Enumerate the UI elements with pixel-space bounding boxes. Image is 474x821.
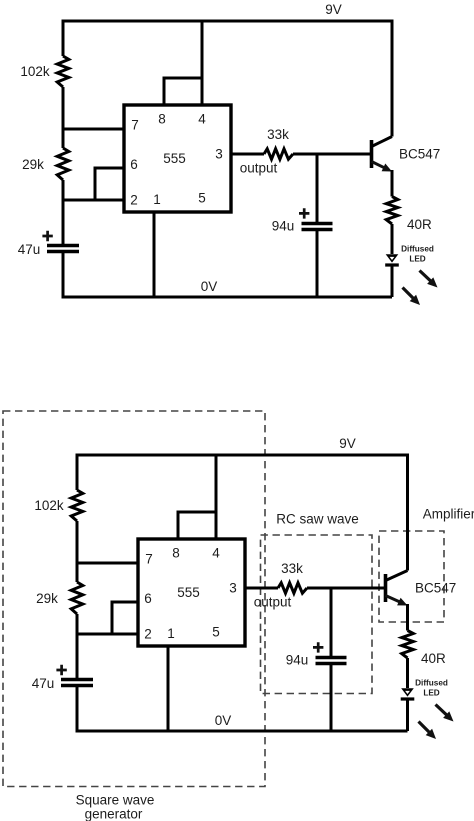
capacitor 47u (b) <box>32 665 93 691</box>
resistor 102k (b) <box>34 490 82 521</box>
resistor 33k (b) <box>278 561 307 593</box>
wire junction to pin 7 (b) <box>77 562 138 565</box>
node 0V label (b) <box>215 713 232 728</box>
wire pin 8 loop to pin 4 (b) <box>178 512 216 539</box>
node output label (a) <box>240 161 278 176</box>
pin 5 label (b) <box>212 625 220 640</box>
wire emitter to 40R (a) <box>391 170 394 197</box>
svg-text:RC saw wave: RC saw wave <box>276 512 359 527</box>
node 9V label (a) <box>325 2 342 17</box>
svg-text:generator: generator <box>85 807 143 821</box>
svg-text:47u: 47u <box>18 242 41 257</box>
svg-text:LED: LED <box>423 689 439 698</box>
svg-text:BC547: BC547 <box>399 147 440 162</box>
wire junction to pin 7 (a) <box>63 128 124 131</box>
wire pin 3 output to 33k (b) <box>245 587 278 590</box>
dashed block Square wave generator <box>3 411 265 821</box>
node output label (b) <box>254 595 292 610</box>
svg-text:3: 3 <box>215 147 223 162</box>
transistor BC547 (b) <box>386 571 457 606</box>
wire left rail 29k to 47u (a) <box>62 180 65 245</box>
svg-text:8: 8 <box>172 546 180 561</box>
svg-text:6: 6 <box>130 157 138 172</box>
svg-text:555: 555 <box>163 151 186 166</box>
svg-text:555: 555 <box>177 585 200 600</box>
transistor BC547 (a) <box>372 137 441 172</box>
pin 4 label (a) <box>198 112 206 127</box>
wire 33k to transistor base (a) <box>293 153 372 156</box>
resistor 40R (a) <box>386 197 432 233</box>
diode Diffused LED (a) <box>385 245 434 266</box>
svg-text:33k: 33k <box>267 127 289 142</box>
pin 3 label (b) <box>229 581 237 596</box>
wire junction to pin 2 (b) <box>77 633 138 636</box>
svg-text:5: 5 <box>198 191 206 206</box>
svg-text:102k: 102k <box>20 64 50 79</box>
svg-text:2: 2 <box>130 193 138 208</box>
wire 40R to LED (b) <box>406 658 409 688</box>
svg-text:3: 3 <box>229 581 237 596</box>
pin 6 label (a) <box>130 157 138 172</box>
svg-text:94u: 94u <box>286 653 309 668</box>
wire left rail 102k to 29k (a) <box>62 87 65 148</box>
wire pin 4 riser to 9V rail (a) <box>201 21 204 105</box>
LED light arrow 1 (a) <box>420 271 438 288</box>
svg-text:47u: 47u <box>32 676 55 691</box>
svg-text:Square wave: Square wave <box>76 793 155 808</box>
resistor 29k (b) <box>36 582 83 614</box>
wire 94u to 0V rail (b) <box>330 664 333 732</box>
svg-text:9V: 9V <box>339 436 356 451</box>
svg-text:40R: 40R <box>407 217 432 232</box>
svg-text:40R: 40R <box>421 651 446 666</box>
svg-text:output: output <box>254 595 292 610</box>
IC U1 555 timer (b) <box>138 539 245 646</box>
pin 2 label (b) <box>144 627 152 642</box>
svg-text:0V: 0V <box>215 713 232 728</box>
dashed block Amplifier <box>379 507 474 623</box>
pin 3 label (a) <box>215 147 223 162</box>
wire pin 4 riser to 9V rail (b) <box>215 455 218 539</box>
svg-text:Amplifier: Amplifier <box>423 507 474 522</box>
wire junction down to 94u (b) <box>330 588 333 657</box>
pin 1 label (a) <box>153 192 161 207</box>
svg-text:4: 4 <box>198 112 206 127</box>
wire 47u to 0V rail and bottom rail (a) <box>63 252 392 298</box>
pin 8 label (a) <box>158 112 166 127</box>
wire 47u to 0V rail and bottom rail (b) <box>77 686 408 732</box>
svg-text:0V: 0V <box>201 279 218 294</box>
svg-text:9V: 9V <box>325 2 342 17</box>
wire pin 1 to 0V rail (a) <box>153 212 156 297</box>
svg-text:4: 4 <box>212 546 220 561</box>
svg-text:94u: 94u <box>272 219 295 234</box>
wire pin 3 output to 33k (a) <box>231 153 264 156</box>
wire 94u to 0V rail (a) <box>316 230 319 298</box>
svg-text:7: 7 <box>145 552 153 567</box>
svg-text:29k: 29k <box>22 157 44 172</box>
wire LED to 0V rail (b) <box>406 699 409 731</box>
resistor 29k (a) <box>22 148 69 180</box>
wire top 9V rail and left/right risers (a) <box>63 21 392 137</box>
svg-text:8: 8 <box>158 112 166 127</box>
IC U1 555 timer (a) <box>124 105 231 212</box>
pin 8 label (b) <box>172 546 180 561</box>
pin 6 label (b) <box>144 591 152 606</box>
svg-text:1: 1 <box>167 626 175 641</box>
capacitor 47u (a) <box>18 231 79 257</box>
svg-text:LED: LED <box>409 255 425 264</box>
pin 2 label (a) <box>130 193 138 208</box>
resistor 40R (b) <box>402 631 446 667</box>
svg-text:output: output <box>240 161 278 176</box>
wire pin 1 to 0V rail (b) <box>167 646 170 731</box>
wire pin 6 loop to pin 2 wire (b) <box>112 602 138 634</box>
pin 1 label (b) <box>167 626 175 641</box>
wire emitter to 40R (b) <box>406 604 409 631</box>
resistor 33k (a) <box>264 127 293 159</box>
wire LED to 0V rail (a) <box>391 265 394 297</box>
svg-text:2: 2 <box>144 627 152 642</box>
pin 5 label (a) <box>198 191 206 206</box>
pin 7 label (a) <box>131 118 139 133</box>
wire junction to pin 2 (a) <box>63 199 124 202</box>
LED light arrow 1 (b) <box>436 705 454 722</box>
node 0V label (a) <box>201 279 218 294</box>
capacitor 94u (a) <box>272 208 333 233</box>
LED light arrow 2 (a) <box>403 288 421 306</box>
svg-text:Diffused: Diffused <box>415 679 448 688</box>
wire left rail 102k to 29k (b) <box>76 521 79 582</box>
pin 7 label (b) <box>145 552 153 567</box>
svg-text:102k: 102k <box>34 498 64 513</box>
wire 40R to LED (a) <box>391 224 394 254</box>
svg-text:7: 7 <box>131 118 139 133</box>
diode Diffused LED (b) <box>401 679 448 700</box>
svg-text:6: 6 <box>144 591 152 606</box>
node 9V label (b) <box>339 436 356 451</box>
svg-text:33k: 33k <box>281 561 303 576</box>
svg-text:29k: 29k <box>36 591 58 606</box>
wire pin 6 loop to pin 2 wire (a) <box>95 168 124 200</box>
wire pin 8 loop to pin 4 (a) <box>164 78 202 105</box>
svg-text:1: 1 <box>153 192 161 207</box>
svg-text:BC547: BC547 <box>415 581 456 596</box>
wire 33k to transistor base (b) <box>307 587 386 590</box>
svg-text:Diffused: Diffused <box>401 245 434 254</box>
LED light arrow 2 (b) <box>419 722 437 740</box>
wire left rail 29k to 47u (b) <box>76 614 79 679</box>
svg-text:5: 5 <box>212 625 220 640</box>
wire junction down to 94u (a) <box>316 154 319 223</box>
dashed block RC saw wave <box>261 512 373 694</box>
wire top 9V rail and left/right risers (b) <box>77 455 408 571</box>
capacitor 94u (b) <box>286 642 347 667</box>
pin 4 label (b) <box>212 546 220 561</box>
resistor 102k (a) <box>20 56 68 87</box>
